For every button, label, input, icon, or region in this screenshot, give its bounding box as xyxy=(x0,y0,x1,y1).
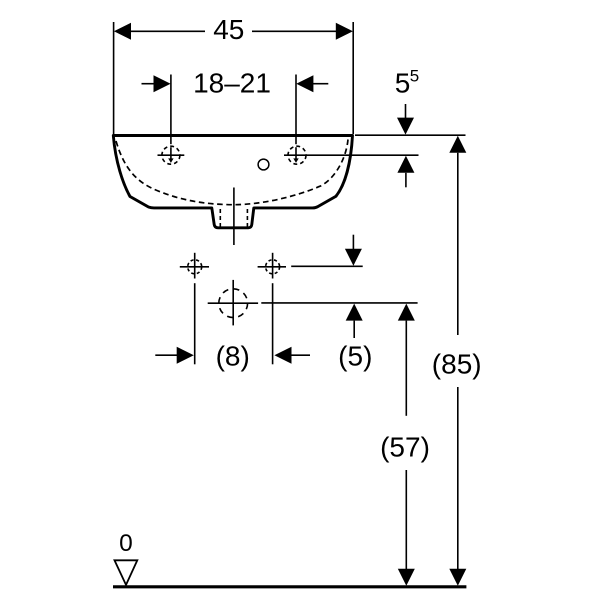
trap horizontal centerline xyxy=(208,302,258,304)
dim 45: right extension line xyxy=(352,22,354,134)
dim 5 vertical: up arrowhead xyxy=(346,304,363,321)
svg-text:45: 45 xyxy=(213,14,244,45)
left mounting hole vertical centerline xyxy=(194,253,196,279)
svg-text:5: 5 xyxy=(395,68,411,99)
dim (85): line lower segment xyxy=(457,387,459,570)
dim 18-21: small arrow at left tap hole xyxy=(168,158,173,163)
dim 18-21: left arrow tail xyxy=(142,83,155,85)
mounting hole level: down arrow tail xyxy=(352,235,354,250)
left tap hole horizontal centerline xyxy=(158,154,185,156)
right mounting hole vertical centerline xyxy=(272,253,274,279)
dim (8): right arrowhead xyxy=(274,347,291,364)
dim (8): left arrow tail xyxy=(155,354,177,356)
dim 5.5: upper arrow tail xyxy=(405,104,407,119)
dim 5.5: lower arrowhead (up) xyxy=(397,156,414,173)
left tap hole dashed circle xyxy=(162,146,180,164)
dim 45: line right segment xyxy=(252,30,339,32)
right mounting hole extension line down xyxy=(272,283,274,364)
drain centerline xyxy=(233,188,235,246)
dim 5 vertical: tail below xyxy=(353,321,355,338)
dim 18-21: right arrow tail xyxy=(313,83,328,85)
dim (85): line upper segment xyxy=(457,153,459,335)
washbasin outer outline xyxy=(113,136,352,228)
top leader line at basin rim level xyxy=(355,134,466,136)
dim (57): line upper segment xyxy=(405,321,407,416)
overflow hole xyxy=(258,159,269,170)
left mounting hole horizontal centerline xyxy=(180,266,209,268)
leader line at trap level xyxy=(261,302,417,304)
dim 18-21: left extension/centerline down to tap hole xyxy=(170,75,172,145)
dim 18-21: right extension/centerline down to tap hole xyxy=(295,75,297,145)
dim 18-21: small arrow at right tap hole xyxy=(293,158,298,163)
right tap hole dashed circle xyxy=(288,146,306,164)
right tap hole centerline / leader to 5.5 dim xyxy=(284,154,419,156)
dim (85): top arrowhead (up, at rim leader) xyxy=(449,136,466,153)
trap dashed circle xyxy=(219,289,248,318)
dim (57): line lower segment xyxy=(405,470,407,570)
dim 45: left arrowhead xyxy=(114,23,131,40)
floor line xyxy=(113,585,466,588)
left mounting hole extension line down xyxy=(194,283,196,364)
svg-text:18–21: 18–21 xyxy=(193,67,271,98)
dim 18-21: left arrowhead xyxy=(154,75,171,92)
left mounting hole dashed circle xyxy=(188,260,202,274)
leader line at mounting hole level xyxy=(291,265,363,267)
svg-text:(5): (5) xyxy=(338,340,372,371)
trap vertical centerline xyxy=(232,280,234,326)
dim 5.5: lower arrow tail xyxy=(405,173,407,188)
drain outlet inner dashed lines xyxy=(219,209,221,227)
svg-text:0: 0 xyxy=(119,530,133,557)
svg-text:(57): (57) xyxy=(380,432,430,463)
dim 18-21: right arrowhead xyxy=(296,75,313,92)
svg-text:5: 5 xyxy=(410,67,419,86)
dim (8): right arrow tail xyxy=(292,354,311,356)
dim 45: left extension line xyxy=(113,22,115,134)
svg-text:(8): (8) xyxy=(216,340,250,371)
svg-text:(85): (85) xyxy=(432,348,482,379)
dim 5.5: upper arrowhead (down) xyxy=(397,118,414,135)
mounting hole level: down arrowhead xyxy=(345,249,362,266)
dim 45: line left segment xyxy=(128,30,205,32)
inner bowl dashed outline xyxy=(116,140,348,205)
right mounting hole dashed circle xyxy=(266,260,280,274)
dim (8): left arrowhead xyxy=(177,347,194,364)
dim (57): upper arrowhead (up, at trap level) xyxy=(398,304,415,321)
dim 45: right arrowhead xyxy=(336,23,353,40)
dim (57): bottom arrowhead (down, at floor) xyxy=(398,569,415,586)
datum triangle xyxy=(115,560,138,585)
right mounting hole horizontal centerline xyxy=(258,266,286,268)
dim (85): bottom arrowhead (down, at floor) xyxy=(449,569,466,586)
